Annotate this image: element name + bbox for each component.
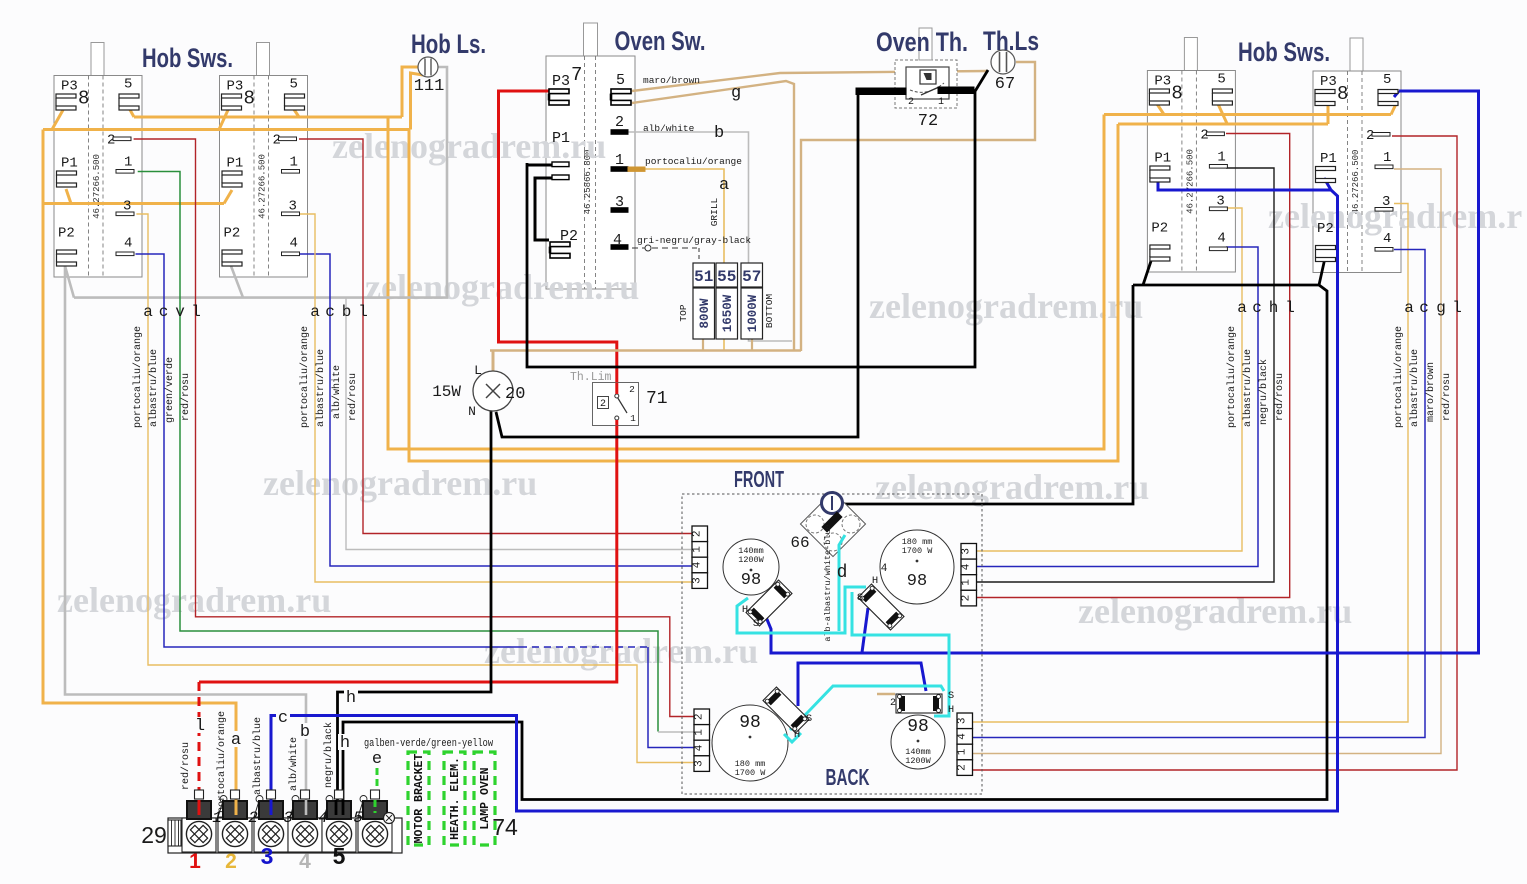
svg-text:albastru/blue: albastru/blue: [252, 717, 264, 795]
svg-text:c: c: [159, 303, 169, 321]
svg-text:l: l: [358, 303, 368, 321]
svg-text:1: 1: [961, 579, 973, 586]
svg-text:3: 3: [957, 717, 969, 724]
svg-text:a: a: [719, 176, 729, 195]
svg-text:maro/brown: maro/brown: [1425, 362, 1437, 422]
svg-text:P3: P3: [1320, 74, 1337, 90]
svg-text:4: 4: [692, 561, 704, 568]
svg-text:portocaliu/orange: portocaliu/orange: [299, 326, 311, 428]
svg-text:5: 5: [616, 72, 625, 89]
svg-text:20: 20: [505, 385, 525, 404]
svg-text:1: 1: [1217, 150, 1225, 166]
svg-text:v: v: [175, 303, 185, 321]
svg-text:Th.Ls: Th.Ls: [983, 26, 1039, 56]
svg-text:57: 57: [742, 268, 761, 286]
svg-text:4: 4: [1383, 231, 1391, 247]
svg-text:LAMP OVEN: LAMP OVEN: [479, 767, 492, 829]
svg-text:zelenogradrem.ru: zelenogradrem.ru: [875, 467, 1149, 507]
svg-text:2: 2: [694, 713, 706, 720]
svg-text:2: 2: [248, 809, 258, 827]
svg-text:zelenogradrem.ru: zelenogradrem.ru: [869, 286, 1143, 326]
svg-text:H: H: [872, 575, 878, 587]
svg-text:1: 1: [692, 546, 704, 553]
svg-text:P3: P3: [61, 79, 78, 95]
svg-text:portocaliu/orange: portocaliu/orange: [1393, 326, 1405, 428]
svg-text:gri-negru/gray-black: gri-negru/gray-black: [637, 235, 751, 246]
svg-text:5: 5: [333, 843, 346, 869]
svg-text:P2: P2: [58, 226, 75, 242]
svg-text:72: 72: [918, 112, 938, 131]
svg-text:66: 66: [790, 534, 809, 552]
svg-text:2: 2: [225, 850, 237, 873]
svg-text:1200W: 1200W: [738, 555, 764, 565]
svg-text:red/rosu: red/rosu: [1441, 373, 1453, 421]
svg-text:4: 4: [957, 733, 969, 740]
svg-text:5: 5: [1217, 72, 1225, 88]
svg-text:4: 4: [124, 236, 132, 252]
svg-text:h: h: [340, 734, 350, 753]
svg-text:7: 7: [571, 64, 582, 86]
svg-text:h: h: [1269, 299, 1279, 317]
svg-text:zelenogradrem.r: zelenogradrem.r: [1268, 196, 1522, 236]
svg-text:maro/brown: maro/brown: [643, 75, 700, 86]
svg-text:g: g: [731, 84, 741, 103]
svg-text:98: 98: [741, 571, 761, 590]
svg-text:BOTTOM: BOTTOM: [764, 294, 775, 329]
svg-text:46.27266.500: 46.27266.500: [1185, 149, 1195, 214]
svg-text:2: 2: [961, 595, 973, 602]
svg-text:b: b: [342, 303, 352, 321]
svg-text:1: 1: [290, 155, 298, 171]
svg-text:2: 2: [957, 764, 969, 771]
svg-text:galben-verde/green-yellow: galben-verde/green-yellow: [364, 738, 493, 750]
svg-text:5: 5: [353, 809, 363, 827]
svg-text:FRONT: FRONT: [734, 466, 784, 492]
svg-text:8: 8: [244, 88, 255, 110]
svg-text:alb/white: alb/white: [643, 123, 695, 134]
svg-text:98: 98: [907, 717, 929, 737]
svg-text:46.27266.500: 46.27266.500: [92, 154, 102, 219]
svg-text:4: 4: [961, 563, 973, 570]
svg-text:1: 1: [124, 155, 132, 171]
svg-text:GRILL: GRILL: [709, 197, 720, 226]
svg-text:portocaliu/orange: portocaliu/orange: [132, 326, 144, 428]
svg-text:3: 3: [615, 194, 624, 211]
svg-text:red/rosu: red/rosu: [347, 373, 359, 421]
svg-text:l: l: [191, 303, 201, 321]
svg-text:1: 1: [938, 97, 944, 108]
svg-text:5: 5: [290, 77, 298, 93]
svg-text:3: 3: [261, 843, 274, 869]
svg-text:29: 29: [141, 822, 167, 848]
svg-text:albastru/blue: albastru/blue: [315, 349, 327, 427]
svg-text:P1: P1: [61, 156, 78, 172]
svg-text:P2: P2: [1151, 221, 1168, 237]
svg-text:e: e: [372, 750, 382, 769]
svg-text:h: h: [346, 689, 356, 708]
svg-text:8: 8: [78, 88, 89, 110]
svg-text:98: 98: [907, 572, 927, 591]
svg-text:2: 2: [629, 384, 635, 395]
svg-text:b: b: [300, 723, 310, 742]
svg-text:alb/white: alb/white: [288, 737, 300, 791]
svg-text:albastru/blue: albastru/blue: [1242, 349, 1254, 427]
svg-text:3: 3: [692, 577, 704, 584]
svg-text:portocaliu/orange: portocaliu/orange: [216, 711, 228, 813]
svg-text:H: H: [742, 604, 748, 616]
svg-text:BACK: BACK: [826, 764, 870, 790]
svg-text:c: c: [1252, 299, 1262, 317]
svg-text:H: H: [948, 704, 954, 716]
svg-text:2: 2: [908, 97, 914, 108]
svg-text:c: c: [325, 303, 335, 321]
svg-text:alb-albastru/white-blue: alb-albastru/white-blue: [823, 524, 833, 641]
svg-text:portocaliu/orange: portocaliu/orange: [1226, 326, 1238, 428]
svg-text:2: 2: [890, 698, 896, 709]
svg-text:red/rosu: red/rosu: [1274, 373, 1286, 421]
svg-text:8: 8: [1171, 83, 1182, 105]
svg-text:1: 1: [630, 413, 636, 424]
svg-text:l: l: [195, 717, 205, 736]
svg-text:negru/black: negru/black: [1258, 359, 1270, 425]
svg-text:4: 4: [613, 232, 622, 249]
svg-text:d: d: [837, 563, 848, 583]
svg-text:1000W: 1000W: [746, 294, 760, 332]
svg-text:S: S: [857, 592, 863, 604]
svg-text:5: 5: [1383, 72, 1391, 88]
svg-text:P3: P3: [552, 73, 570, 90]
svg-text:N: N: [468, 404, 476, 419]
svg-text:Hob Sws.: Hob Sws.: [1238, 37, 1330, 67]
svg-text:l: l: [1452, 299, 1462, 317]
svg-text:MOTOR BRACKET: MOTOR BRACKET: [413, 754, 426, 844]
svg-text:46.27266.500: 46.27266.500: [258, 154, 268, 219]
svg-text:1200W: 1200W: [905, 756, 931, 766]
svg-text:a: a: [143, 303, 153, 321]
svg-text:P2: P2: [1317, 221, 1334, 237]
svg-text:4: 4: [881, 563, 888, 575]
svg-text:4: 4: [318, 809, 328, 827]
svg-text:1650W: 1650W: [721, 294, 735, 332]
svg-text:green/verde: green/verde: [164, 357, 176, 423]
svg-text:51: 51: [694, 268, 713, 286]
svg-text:1: 1: [1383, 150, 1391, 166]
svg-text:a: a: [1404, 299, 1414, 317]
svg-text:negru/black: negru/black: [323, 722, 335, 788]
svg-text:1: 1: [212, 809, 222, 827]
svg-text:zelenogradrem.ru: zelenogradrem.ru: [57, 580, 331, 620]
svg-text:Oven Sw.: Oven Sw.: [615, 26, 706, 56]
svg-text:3: 3: [961, 548, 973, 555]
svg-text:111: 111: [414, 77, 445, 96]
svg-text:alb/white: alb/white: [331, 365, 343, 419]
svg-text:2: 2: [692, 530, 704, 537]
svg-text:1700 W: 1700 W: [902, 546, 934, 556]
svg-text:g: g: [1436, 299, 1446, 317]
svg-text:8: 8: [1337, 83, 1348, 105]
svg-text:2: 2: [600, 399, 606, 410]
svg-text:15W: 15W: [432, 383, 461, 401]
svg-text:3: 3: [283, 809, 293, 827]
svg-text:HEATH. ELEM.: HEATH. ELEM.: [449, 757, 462, 840]
svg-text:zelenogradrem.ru: zelenogradrem.ru: [365, 267, 639, 307]
svg-text:zelenogradrem.ru: zelenogradrem.ru: [263, 463, 537, 503]
svg-text:S: S: [753, 618, 759, 630]
svg-text:TOP: TOP: [678, 304, 689, 321]
svg-text:l: l: [1285, 299, 1295, 317]
svg-text:b: b: [714, 124, 724, 143]
svg-text:P1: P1: [1320, 151, 1337, 167]
svg-text:P3: P3: [227, 79, 244, 95]
svg-text:55: 55: [717, 268, 736, 286]
svg-text:800W: 800W: [698, 298, 712, 329]
svg-text:71: 71: [646, 389, 668, 409]
svg-text:albastru/blue: albastru/blue: [1409, 349, 1421, 427]
svg-text:Th.Lim: Th.Lim: [570, 371, 612, 384]
svg-text:4: 4: [694, 744, 706, 751]
svg-text:4: 4: [1217, 231, 1225, 247]
svg-text:3: 3: [694, 760, 706, 767]
svg-text:4: 4: [299, 850, 311, 873]
svg-text:1700 W: 1700 W: [735, 768, 767, 778]
svg-text:1: 1: [694, 729, 706, 736]
svg-text:67: 67: [995, 75, 1015, 94]
svg-text:red/rosu: red/rosu: [180, 373, 192, 421]
svg-text:S: S: [948, 690, 954, 702]
svg-text:4: 4: [290, 236, 298, 252]
svg-text:a: a: [231, 731, 241, 750]
svg-text:2: 2: [615, 114, 624, 131]
svg-text:98: 98: [739, 713, 761, 733]
svg-text:1: 1: [957, 748, 969, 755]
svg-text:a: a: [1237, 299, 1247, 317]
svg-text:P1: P1: [1154, 151, 1171, 167]
svg-text:H: H: [794, 729, 800, 741]
svg-text:Hob Ls.: Hob Ls.: [411, 29, 486, 59]
svg-text:P1: P1: [227, 156, 244, 172]
svg-text:P2: P2: [560, 228, 578, 245]
svg-text:S: S: [806, 713, 812, 725]
svg-text:P2: P2: [224, 226, 241, 242]
svg-text:L: L: [474, 363, 482, 378]
svg-text:1: 1: [615, 152, 624, 169]
svg-text:c: c: [1419, 299, 1429, 317]
svg-text:Oven Th.: Oven Th.: [876, 27, 968, 57]
svg-text:c: c: [278, 709, 288, 728]
svg-text:portocaliu/orange: portocaliu/orange: [645, 156, 742, 167]
svg-text:P1: P1: [552, 130, 570, 147]
svg-text:Hob Sws.: Hob Sws.: [142, 43, 233, 73]
svg-text:red/rosu: red/rosu: [180, 742, 192, 790]
svg-text:5: 5: [124, 77, 132, 93]
svg-text:P3: P3: [1154, 74, 1171, 90]
svg-text:1: 1: [189, 850, 201, 873]
svg-text:a: a: [310, 303, 320, 321]
svg-text:albastru/blue: albastru/blue: [148, 349, 160, 427]
